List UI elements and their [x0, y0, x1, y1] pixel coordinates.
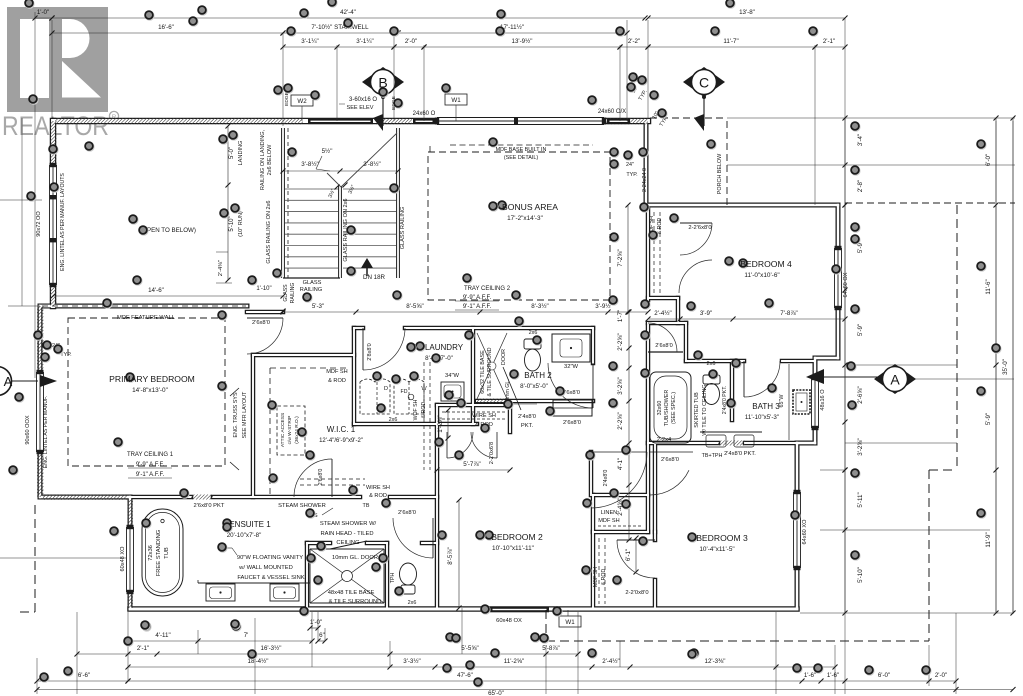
svg-text:TB: TB [363, 503, 370, 509]
svg-text:5'-10": 5'-10" [857, 567, 864, 583]
window 3-60x16 (dark band) [308, 119, 373, 125]
svg-text:42'-4": 42'-4" [340, 9, 356, 16]
svg-text:35'-0": 35'-0" [1002, 359, 1009, 375]
dim col hall [628, 312, 630, 348]
svg-text:6": 6" [319, 632, 325, 639]
door bedroom3 [617, 540, 655, 578]
svg-text:& ROD: & ROD [601, 569, 607, 586]
tray ceiling 1 dashed [68, 318, 225, 466]
svg-text:2'6x8'0: 2'6x8'0 [398, 510, 416, 516]
svg-text:SEE ELEV: SEE ELEV [346, 105, 373, 111]
svg-text:12'-3⅜": 12'-3⅜" [705, 658, 726, 665]
fixture ensuite steam shower [310, 548, 384, 550]
svg-text:W: W [421, 386, 427, 392]
scatter dot markers [25, 0, 35, 9]
closet wire shelf WIC east [423, 362, 425, 470]
svg-text:TUB: TUB [164, 547, 170, 559]
door laundry [363, 328, 405, 370]
svg-text:W.I.C. 1: W.I.C. 1 [327, 425, 356, 434]
svg-text:5'-10": 5'-10" [229, 216, 235, 231]
svg-text:MDF FEATURE WALL: MDF FEATURE WALL [117, 315, 176, 321]
window left lower 90x60 OOX [37, 372, 44, 452]
dim col 1013 [1012, 118, 1014, 613]
staircase treads and glass railings [281, 128, 283, 278]
dim 14'-6 [53, 295, 283, 297]
svg-text:6'-0": 6'-0" [985, 154, 992, 166]
svg-text:24": 24" [626, 162, 634, 168]
svg-text:TRAY CEILING 1: TRAY CEILING 1 [127, 452, 174, 458]
svg-text:2-2'0x6'8: 2-2'0x6'8 [489, 442, 495, 464]
svg-text:11'-9": 11'-9" [985, 532, 992, 547]
svg-text:2'6x8'0: 2'6x8'0 [661, 457, 679, 463]
svg-text:1'-0": 1'-0" [37, 9, 49, 16]
svg-text:32x60: 32x60 [657, 401, 663, 416]
svg-text:ENG. LINTEL AS PER MANUF. LAYO: ENG. LINTEL AS PER MANUF. LAYOUTS [60, 173, 66, 271]
svg-text:34"W: 34"W [445, 373, 460, 379]
dim 1'-0 top [35, 17, 52, 19]
svg-text:2'8x8'0: 2'8x8'0 [367, 343, 373, 360]
svg-text:2x6: 2x6 [389, 417, 398, 423]
svg-text:3'-1¼": 3'-1¼" [356, 38, 373, 45]
svg-text:5'-8⅞": 5'-8⅞" [542, 645, 559, 652]
svg-text:w/ WALL MOUNTED: w/ WALL MOUNTED [238, 565, 293, 571]
section marker A left [0, 367, 12, 396]
svg-text:& TILE SURROUND: & TILE SURROUND [329, 599, 382, 605]
svg-text:BEDROOM 3: BEDROOM 3 [696, 533, 748, 543]
svg-text:& ROD: & ROD [421, 402, 427, 419]
svg-text:7'-10½" STAIRWELL: 7'-10½" STAIRWELL [311, 24, 369, 31]
svg-text:2'6x8'0: 2'6x8'0 [318, 469, 324, 486]
svg-text:3'-8½": 3'-8½" [301, 161, 318, 168]
svg-text:2'6x8'0: 2'6x8'0 [252, 320, 270, 326]
svg-text:5'-3": 5'-3" [312, 303, 324, 310]
svg-text:2-2'6x8'0: 2-2'6x8'0 [688, 225, 711, 231]
svg-text:c/w W-STRIP: c/w W-STRIP [287, 416, 293, 445]
svg-text:3'-1¼": 3'-1¼" [301, 38, 318, 45]
door bath3 nook [648, 351, 683, 353]
label bedroom3 [688, 533, 698, 543]
dim 1-2 [447, 410, 449, 438]
svg-text:20'-10"x7'-8": 20'-10"x7'-8" [227, 532, 262, 539]
fixture free-standing tub [142, 509, 183, 596]
svg-text:64x60 XO: 64x60 XO [802, 519, 808, 545]
svg-text:W1: W1 [565, 619, 575, 626]
win label W1 bottom box [559, 616, 581, 627]
svg-text:8mm GL.: 8mm GL. [505, 379, 511, 400]
svg-text:2x6: 2x6 [529, 330, 538, 336]
fixture bath2 vanity [552, 334, 590, 362]
svg-text:MDF SH: MDF SH [598, 518, 619, 524]
door bath2 [548, 363, 593, 408]
svg-text:48x48 TILE BASE: 48x48 TILE BASE [328, 590, 375, 596]
svg-text:2'-0": 2'-0" [935, 672, 947, 679]
svg-text:DOOR: DOOR [501, 349, 507, 365]
dim row4 bottom [128, 680, 802, 682]
svg-text:2'-1": 2'-1" [137, 645, 149, 652]
svg-text:9'-1" A.F.F.: 9'-1" A.F.F. [136, 472, 165, 478]
svg-text:A: A [4, 374, 13, 389]
svg-text:10'-10"x11'-11": 10'-10"x11'-11" [492, 545, 534, 552]
svg-text:GLASS: GLASS [303, 280, 322, 286]
svg-text:5'-0": 5'-0" [229, 147, 235, 159]
svg-text:& TILE SURROUND: & TILE SURROUND [487, 347, 493, 396]
roof dashed left [34, 505, 36, 612]
svg-text:W2: W2 [297, 98, 307, 105]
svg-text:8'-5⅝": 8'-5⅝" [406, 303, 423, 310]
svg-text:3'-2⅝": 3'-2⅝" [617, 377, 624, 394]
svg-text:RAILING: RAILING [300, 287, 322, 293]
svg-text:6'-0": 6'-0" [878, 672, 890, 679]
dim stairwell [283, 32, 398, 34]
svg-text:2-2x4: 2-2x4 [657, 437, 672, 443]
svg-text:14'-6": 14'-6" [148, 287, 164, 294]
svg-text:90"W FLOATING VANITY: 90"W FLOATING VANITY [237, 555, 303, 561]
svg-text:9'-9" A.F.F.: 9'-9" A.F.F. [136, 462, 165, 468]
dim hall row [283, 311, 356, 313]
dim 7-2 col [627, 205, 629, 312]
door ensuite entry [393, 518, 433, 558]
svg-text:EDGE: EDGE [284, 92, 290, 106]
svg-text:90x60 OOX: 90x60 OOX [25, 415, 31, 444]
svg-text:2'-0": 2'-0" [405, 38, 417, 45]
attic access box [277, 406, 305, 455]
svg-text:8'-5⅞": 8'-5⅞" [447, 547, 454, 564]
svg-text:11'-7": 11'-7" [723, 38, 738, 45]
door bedroom2 entry [591, 452, 647, 508]
closet rods bedroom4 [653, 212, 655, 296]
svg-text:10'-4"x11'-5": 10'-4"x11'-5" [699, 546, 734, 553]
svg-text:1'-6": 1'-6" [827, 672, 839, 679]
svg-text:2'6x8'0: 2'6x8'0 [563, 420, 581, 426]
svg-text:PRIMARY BEDROOM: PRIMARY BEDROOM [109, 374, 195, 384]
svg-text:60x32 TILE BASE: 60x32 TILE BASE [480, 350, 486, 394]
svg-text:2-2'0x8'0: 2-2'0x8'0 [625, 590, 648, 596]
svg-text:90x72 OO: 90x72 OO [36, 211, 42, 237]
dim 1'-0 ens [310, 627, 318, 629]
window bottom 60x48 OX [490, 607, 549, 613]
svg-text:SKIRTED TUB: SKIRTED TUB [694, 392, 700, 428]
REALTOR watermark logo block [7, 7, 108, 112]
window 24x60 O/X (dark band) [607, 119, 630, 125]
svg-text:BATH 2: BATH 2 [524, 371, 552, 380]
svg-text:5'-11": 5'-11" [857, 492, 864, 507]
svg-text:2x6: 2x6 [706, 361, 715, 367]
svg-text:FREE STANDING: FREE STANDING [156, 529, 162, 576]
svg-text:2'6x8'0: 2'6x8'0 [655, 343, 672, 349]
svg-text:4'-11": 4'-11" [155, 632, 170, 639]
svg-text:1'-0": 1'-0" [310, 619, 322, 626]
svg-text:16'-6": 16'-6" [158, 24, 174, 31]
svg-text:RAILING ON LANDING,: RAILING ON LANDING, [260, 129, 266, 190]
svg-text:2-24x24 0: 2-24x24 0 [642, 168, 648, 192]
svg-text:PKT.: PKT. [521, 423, 534, 429]
svg-text:GLASS: GLASS [283, 284, 289, 302]
svg-text:4'-1": 4'-1" [617, 458, 624, 470]
svg-text:5'-7⅞": 5'-7⅞" [463, 461, 480, 468]
closet wic south dashes [270, 367, 348, 369]
svg-text:TYP.: TYP. [626, 172, 637, 178]
stair DN arrow [361, 258, 373, 268]
svg-text:6'-6": 6'-6" [78, 672, 90, 679]
svg-text:2'4x8'0: 2'4x8'0 [603, 470, 609, 487]
stair dim line [283, 170, 398, 172]
fixture laundry vanity 34W [441, 382, 464, 401]
svg-text:TUB/SHOWER: TUB/SHOWER [664, 390, 670, 427]
dim 65'-0 [37, 689, 956, 691]
dim col 996 [995, 118, 997, 205]
svg-text:17'-2"x14'-3": 17'-2"x14'-3" [507, 215, 543, 222]
svg-text:11'-2⅝": 11'-2⅝" [504, 658, 524, 665]
svg-text:2x6: 2x6 [408, 600, 417, 606]
svg-text:11'-0"x10'-6": 11'-0"x10'-6" [744, 272, 779, 279]
svg-text:(SEE SPEC.): (SEE SPEC.) [671, 392, 677, 424]
svg-text:& ROD: & ROD [328, 378, 346, 384]
svg-text:13'-9½": 13'-9½" [512, 38, 533, 45]
fixture bath3 toilet [703, 375, 720, 384]
svg-text:ENG. TRUSS SYS: ENG. TRUSS SYS [233, 392, 239, 438]
dim 5-7 [437, 469, 510, 471]
dim 3-1 pair [283, 46, 337, 48]
svg-text:PORCH BELOW: PORCH BELOW [717, 153, 723, 194]
fixture laundry washer dryer [360, 379, 390, 414]
svg-text:1'-10": 1'-10" [256, 286, 271, 292]
svg-text:W1: W1 [451, 97, 461, 104]
svg-text:65"W: 65"W [779, 394, 785, 408]
svg-text:2'-2⅝": 2'-2⅝" [617, 412, 624, 429]
svg-text:W/ TILE TO CEILING: W/ TILE TO CEILING [702, 384, 708, 435]
svg-text:2'-2⅝": 2'-2⅝" [617, 333, 624, 350]
svg-text:LINEN: LINEN [601, 510, 617, 516]
svg-text:12'-4"/6'-9"x9'-2": 12'-4"/6'-9"x9'-2" [319, 438, 363, 444]
dim extension lines top [51, 20, 53, 118]
svg-text:6'-1": 6'-1" [625, 549, 632, 561]
svg-text:BATH 3: BATH 3 [752, 402, 780, 411]
label laundry [416, 342, 426, 352]
section marker B [362, 67, 404, 97]
svg-text:C: C [699, 75, 709, 91]
label primary bedroom [126, 373, 136, 383]
closet wire closet interior [442, 411, 505, 413]
svg-text:8'-0"x5'-0": 8'-0"x5'-0" [520, 383, 548, 390]
fixture bath3 tub [650, 372, 691, 443]
window 24x60 O (dark band) [413, 119, 435, 125]
svg-text:WOF SH: WOF SH [413, 399, 419, 420]
svg-text:TPH: TPH [390, 573, 396, 584]
svg-text:RAILING: RAILING [290, 283, 296, 304]
svg-text:FD: FD [401, 389, 408, 395]
svg-text:2'-8": 2'-8" [857, 180, 864, 192]
svg-text:WIRE SH: WIRE SH [366, 485, 390, 491]
label ensuite [223, 519, 233, 529]
svg-text:D: D [384, 386, 388, 392]
svg-text:47'-6": 47'-6" [457, 672, 473, 679]
svg-text:TRAY CEILING 2: TRAY CEILING 2 [464, 286, 511, 292]
dim 13'-8 [648, 17, 845, 19]
svg-text:2'-1": 2'-1" [823, 38, 835, 45]
dim 42'-4 [52, 17, 645, 19]
section marker A right [874, 364, 916, 394]
svg-text:7': 7' [244, 632, 249, 639]
svg-text:TB+TPH: TB+TPH [702, 453, 723, 459]
svg-text:BEDROOM 2: BEDROOM 2 [491, 532, 543, 542]
porch dashed outline [726, 121, 728, 205]
roof dashed right [956, 205, 958, 470]
svg-text:5'-9": 5'-9" [857, 324, 864, 336]
window bedroom3 64x60 XO [794, 492, 801, 568]
wall ensuite wc nook [55, 118, 648, 125]
svg-text:MDF SH: MDF SH [593, 567, 599, 587]
dim 6-1 [635, 538, 637, 572]
svg-text:& ROD: & ROD [657, 218, 663, 235]
svg-text:65'-0": 65'-0" [488, 690, 504, 696]
svg-text:RAIN HEAD - TILED: RAIN HEAD - TILED [320, 531, 373, 537]
svg-text:11'-6": 11'-6" [985, 279, 992, 294]
svg-text:(10" RUN): (10" RUN) [238, 211, 244, 237]
dim 2'-1 top [815, 46, 845, 48]
bonus mdf base dashed [450, 144, 593, 146]
fixture bath3 vanity sink [788, 364, 790, 440]
svg-text:1'-6": 1'-6" [804, 672, 816, 679]
svg-text:STEAM SHOWER W/: STEAM SHOWER W/ [320, 521, 377, 527]
dim 2'-2 [620, 46, 648, 48]
svg-text:32"W: 32"W [564, 364, 579, 370]
dim 2'-0 [394, 46, 424, 48]
dim col left [21, 118, 23, 306]
door bedroom2 closet double [447, 432, 473, 458]
svg-text:9'-1" A.F.F.: 9'-1" A.F.F. [463, 304, 492, 310]
label bonus area [498, 201, 508, 211]
door hall closet [650, 451, 693, 453]
svg-text:BONUS AREA: BONUS AREA [502, 202, 558, 212]
fixture ensuite toilet [400, 563, 417, 585]
dim extension lines right [727, 117, 1015, 119]
svg-text:72x36: 72x36 [148, 545, 154, 561]
svg-text:5'-9": 5'-9" [985, 413, 992, 425]
fixture bath2 toilet [524, 339, 541, 349]
tray ceiling 2 dashed [428, 152, 610, 300]
svg-text:GLASS RAILING ON 2x6: GLASS RAILING ON 2x6 [266, 200, 272, 263]
closet rods bedroom3 [598, 538, 600, 604]
svg-text:(SEE DETAIL): (SEE DETAIL) [504, 155, 539, 161]
fixture bath3 vanity [700, 431, 762, 433]
dim 16'-6 [52, 32, 283, 34]
closet bed2 wardrobe [553, 400, 592, 416]
svg-text:BEDROOM 4: BEDROOM 4 [740, 259, 792, 269]
dim col 845 upper [844, 205, 846, 290]
svg-text:1'-2⅝": 1'-2⅝" [437, 415, 444, 432]
svg-text:LAUNDRY: LAUNDRY [425, 343, 464, 352]
svg-text:16'-3½": 16'-3½" [261, 645, 282, 652]
window left upper 90x72 [50, 165, 57, 285]
svg-text:DN 18R: DN 18R [363, 274, 386, 281]
svg-text:9'-9" A.F.F.: 9'-9" A.F.F. [463, 295, 492, 301]
dim row ens [128, 640, 198, 642]
svg-text:3'-3½": 3'-3½" [403, 658, 420, 665]
dim bedroom4 row [648, 318, 680, 320]
svg-text:8'-3½": 8'-3½" [531, 303, 548, 310]
window bedroom4 64x60 OX [835, 248, 842, 308]
door WIC exit [294, 459, 332, 497]
dim row2 bottom [77, 653, 128, 655]
roof dashed top-right [845, 202, 1015, 204]
label bedroom2 [485, 531, 495, 541]
svg-text:1'-7": 1'-7" [617, 310, 624, 322]
svg-text:14'-8"x13'-0": 14'-8"x13'-0" [132, 387, 168, 394]
svg-text:MDF BASE BUILT IN: MDF BASE BUILT IN [496, 147, 547, 153]
svg-text:7'-8⅞": 7'-8⅞" [780, 310, 797, 317]
svg-text:2'4x8'0: 2'4x8'0 [518, 414, 536, 420]
svg-text:A: A [890, 372, 900, 388]
svg-text:STEAM SHOWER: STEAM SHOWER [278, 503, 326, 509]
svg-text:2'-4½": 2'-4½" [602, 658, 619, 665]
door primary bedroom [247, 318, 283, 354]
svg-text:48x16 O: 48x16 O [820, 389, 826, 411]
dim bed2 col [458, 500, 460, 608]
dim 6-6 [37, 680, 128, 682]
fixture bath2 shower [477, 333, 507, 399]
svg-text:64x60 OX: 64x60 OX [843, 272, 849, 297]
win label W1 box [445, 94, 467, 105]
door bedroom4 closet doors [680, 222, 712, 224]
svg-text:SEE MFR LAYOUT: SEE MFR LAYOUT [242, 391, 248, 438]
dim col 845 lower [844, 470, 846, 530]
svg-text:3-60x16 O: 3-60x16 O [349, 97, 377, 103]
window band over bonus [437, 118, 604, 125]
svg-text:3'-9": 3'-9" [700, 310, 712, 317]
section marker C [683, 67, 725, 97]
stair landing dim col [227, 126, 229, 280]
svg-text:24x60 O/X: 24x60 O/X [598, 109, 626, 115]
dim 17'-11 [398, 32, 627, 34]
dim row3 bottom [128, 666, 390, 668]
dim 3-4 2-8 [844, 118, 846, 165]
svg-text:13'-8": 13'-8" [739, 9, 755, 16]
svg-text:5½": 5½" [322, 148, 333, 155]
svg-text:5'-5⅝": 5'-5⅝" [461, 645, 478, 652]
svg-text:CEILING: CEILING [336, 540, 360, 546]
dim 11'-7 [648, 46, 815, 48]
svg-text:FAUCET & VESSEL SINK: FAUCET & VESSEL SINK [237, 575, 304, 581]
svg-text:ENG. LINTEL AS PER MANUF.: ENG. LINTEL AS PER MANUF. [43, 396, 49, 468]
svg-text:2'-4⅜": 2'-4⅜" [218, 260, 224, 276]
svg-text:& ROD: & ROD [369, 493, 387, 499]
svg-text:60x48 OX: 60x48 OX [496, 618, 522, 624]
svg-text:WIRE SH: WIRE SH [472, 413, 496, 419]
svg-text:3'-2⅝": 3'-2⅝" [857, 438, 864, 455]
svg-text:LANDING: LANDING [238, 141, 244, 166]
dim 13'-9 [424, 46, 620, 48]
door bath3 entry [743, 361, 745, 397]
label bedroom4 [739, 259, 749, 269]
svg-text:60x48 XO: 60x48 XO [120, 546, 126, 572]
win label W2 box [291, 95, 313, 106]
svg-text:2x6 BELOW: 2x6 BELOW [267, 144, 273, 175]
svg-text:MDF SH: MDF SH [326, 369, 347, 375]
svg-text:3'-4": 3'-4" [857, 134, 864, 146]
svg-text:ATTIC ACCESS: ATTIC ACCESS [280, 413, 286, 447]
svg-text:2'-6⅝": 2'-6⅝" [857, 386, 864, 403]
svg-text:10mm GL. DOOR: 10mm GL. DOOR [332, 555, 378, 561]
svg-text:7'-2⅝": 7'-2⅝" [617, 249, 624, 266]
svg-text:2'6x8'0 PKT: 2'6x8'0 PKT [194, 503, 225, 509]
window ensuite 60x48 XO [127, 527, 134, 592]
fixture ensuite vanity [198, 582, 310, 584]
svg-text:2'4x8'0 PKT.: 2'4x8'0 PKT. [722, 386, 728, 415]
svg-text:ENSUITE 1: ENSUITE 1 [229, 520, 271, 529]
svg-text:2'-2": 2'-2" [628, 38, 640, 45]
svg-text:11'-10"x5'-3": 11'-10"x5'-3" [745, 414, 779, 421]
window bath3 48x16 O [812, 378, 819, 428]
